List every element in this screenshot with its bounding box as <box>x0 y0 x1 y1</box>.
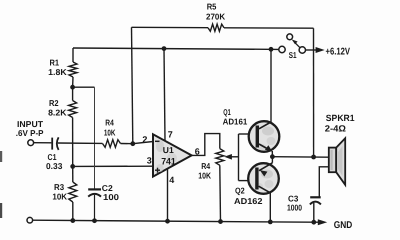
svg-text:0.33: 0.33 <box>46 161 63 171</box>
node Q2 collector/ground rail <box>268 220 273 225</box>
pot wiper arrow <box>230 156 239 158</box>
node B: R2/R3/pin3 junction <box>70 164 75 169</box>
capacitor C3 1000 <box>310 196 321 198</box>
capacitor C1 0.33 <box>51 138 53 150</box>
svg-text:4: 4 <box>169 175 174 185</box>
transistor Q1 AD161 <box>249 121 280 152</box>
svg-text:1.8K: 1.8K <box>48 67 67 77</box>
input terminal ground <box>27 217 33 223</box>
node output/R5/speaker <box>311 155 316 160</box>
wire output node to speaker <box>272 156 328 159</box>
svg-text:R5: R5 <box>207 2 217 12</box>
op-amp U1 741 <box>153 134 192 176</box>
wire C1 to R4 <box>58 142 103 144</box>
svg-text:.6V P-P: .6V P-P <box>16 128 44 138</box>
potentiometer R4 10K <box>216 149 224 166</box>
plus sign <box>155 169 160 171</box>
scan artifact left edge <box>0 151 2 162</box>
resistor R4 10K input <box>103 140 121 148</box>
svg-text:2: 2 <box>142 135 147 145</box>
svg-text:2-4Ω: 2-4Ω <box>325 124 346 134</box>
arrowhead GND <box>314 221 322 223</box>
node A: R1/R2/C2 junction <box>70 85 75 90</box>
svg-text:10K: 10K <box>104 127 116 137</box>
wire op-amp pin7 supply <box>164 49 165 141</box>
wire R4 to node <box>121 143 133 145</box>
wire R2 to node B <box>72 118 74 167</box>
node +V rail / pin7 <box>162 46 167 51</box>
svg-text:10K: 10K <box>52 192 68 202</box>
minus sign <box>155 140 160 142</box>
wire speaker return to C3 <box>319 167 329 197</box>
svg-text:S1: S1 <box>289 50 297 60</box>
svg-text:SPKR1: SPKR1 <box>326 113 355 123</box>
switch S1 pole terminal <box>279 46 285 52</box>
node pin2/R4/R5 <box>130 141 135 146</box>
wire supply to +6.12V <box>306 49 320 51</box>
svg-text:GND: GND <box>334 220 353 231</box>
wire node A to C2 <box>73 86 95 88</box>
wire op-amp pin 2 <box>133 142 153 144</box>
input terminal hot <box>28 140 34 146</box>
arrowhead +6.12V <box>316 47 325 53</box>
switch S1 output terminal <box>299 47 305 53</box>
svg-text:1000: 1000 <box>287 203 302 213</box>
wire pin 4 to ground <box>167 169 169 222</box>
node emitter junction <box>270 154 275 159</box>
switch S1 arm <box>295 42 301 48</box>
ground rail <box>33 220 314 222</box>
svg-text:R4: R4 <box>105 118 114 128</box>
switch S1 throw contact <box>287 34 293 40</box>
node C3/ground rail end <box>311 220 316 225</box>
resistor R3 10K <box>72 166 74 182</box>
node pot/ground rail <box>218 219 223 224</box>
resistor R5 270K <box>208 24 224 31</box>
node +V rail / Q1 collector <box>269 47 274 52</box>
svg-text:AD161: AD161 <box>223 117 248 127</box>
speaker SPKR1 2-4ohm <box>329 148 336 173</box>
wire op-amp pin 3 <box>73 165 153 167</box>
svg-text:8.2K: 8.2K <box>48 108 67 118</box>
svg-text:R2: R2 <box>49 98 59 108</box>
node R3/ground rail <box>70 218 75 223</box>
svg-text:R4: R4 <box>201 161 210 171</box>
wire Q1 base <box>239 133 251 135</box>
resistor R2 8.2K <box>72 87 74 100</box>
wire Q2 base <box>239 180 250 182</box>
svg-text:100: 100 <box>103 192 119 202</box>
svg-text:741: 741 <box>161 156 176 167</box>
svg-text:10K: 10K <box>198 171 212 181</box>
wire input to C1 <box>34 142 52 144</box>
wire +V rail <box>73 48 279 49</box>
wire R5 feedback rail <box>132 26 209 28</box>
wire op-amp output pin 6 <box>192 134 220 156</box>
svg-text:270K: 270K <box>206 11 226 21</box>
capacitor C2 100 <box>88 188 101 190</box>
wire R5 right leg to output node <box>313 28 315 157</box>
node pin4/ground rail <box>165 219 170 224</box>
transistor Q2 AD162 <box>248 163 279 194</box>
wire base bus <box>238 134 240 181</box>
svg-text:7: 7 <box>168 129 173 139</box>
svg-text:3: 3 <box>147 156 152 166</box>
svg-text:+6.12V: +6.12V <box>326 46 351 57</box>
svg-text:Q1: Q1 <box>223 107 231 117</box>
resistor R1 1.8K <box>72 48 74 62</box>
svg-text:U1: U1 <box>163 145 174 155</box>
wire R5 left leg to pin2 node <box>132 27 133 143</box>
wire Q1 collector feed <box>270 49 272 122</box>
node C2/ground rail <box>92 218 97 223</box>
svg-text:AD162: AD162 <box>234 196 263 206</box>
svg-text:Q2: Q2 <box>235 186 245 196</box>
